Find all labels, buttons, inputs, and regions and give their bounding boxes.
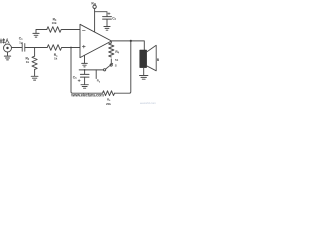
- svg-text:20k: 20k: [106, 102, 111, 106]
- svg-text:10k: 10k: [52, 21, 57, 25]
- svg-text:51: 51: [115, 58, 119, 62]
- svg-text:1μ: 1μ: [19, 40, 23, 44]
- svg-text:eeworld.com: eeworld.com: [140, 101, 157, 105]
- svg-text:1k: 1k: [54, 57, 58, 61]
- svg-text:S: S: [115, 64, 117, 68]
- svg-text:www.elecfans.com: www.elecfans.com: [70, 93, 104, 98]
- svg-text:1k: 1k: [26, 60, 30, 64]
